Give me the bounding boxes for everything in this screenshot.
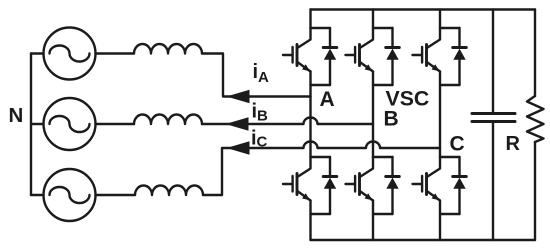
resistor R zigzag — [527, 96, 544, 142]
wire D2 anode to S2 emitter — [440, 213, 460, 215]
wire S2 collector branch to D2 — [440, 156, 460, 158]
wire top bus to upper leg C — [439, 10, 441, 29]
wire phase C from L3 to node C with hops over legs A and B — [203, 142, 440, 196]
wire S5 emitter to node C — [439, 72, 441, 149]
wire capacitor to bottom bus — [492, 122, 494, 240]
transistor S6 (lower leg B IGBT) — [346, 157, 374, 201]
diode D1 — [323, 28, 337, 85]
svg-text:N: N — [9, 104, 24, 127]
transistor S1 (upper leg A IGBT) — [283, 28, 311, 72]
ac source VS1 — [44, 28, 96, 80]
svg-text:C: C — [257, 134, 268, 151]
svg-text:A: A — [320, 88, 335, 111]
wire S2 emitter to bottom bus — [439, 201, 441, 241]
label iA — [253, 61, 270, 86]
diode D5 — [453, 28, 467, 85]
wire S3 emitter to node B — [372, 72, 374, 125]
transistor S2 (lower leg C IGBT) — [413, 157, 441, 201]
bottom DC bus — [311, 239, 536, 241]
wire stub N to source VS1 — [31, 52, 44, 54]
wire stub N to source VS3 — [31, 194, 44, 196]
wire top bus to resistor R — [534, 10, 536, 97]
wire node B to lower leg B — [372, 124, 374, 157]
inductor L2 — [134, 115, 202, 125]
wire S4 emitter to bottom bus — [309, 201, 311, 241]
wire D6 anode to S6 emitter — [373, 213, 393, 215]
transistor S3 (upper leg B IGBT) — [346, 28, 374, 72]
wire S4 collector branch to D4 — [311, 156, 331, 158]
svg-text:R: R — [506, 133, 521, 155]
wire D5 anode to S5 emitter — [440, 84, 460, 86]
wire left neutral bus vertical — [30, 54, 32, 196]
wire VS1 to inductor L1 — [96, 52, 135, 54]
label iC — [251, 128, 268, 151]
wire S5 collector branch to D5 — [440, 27, 460, 29]
inductor L3 — [135, 186, 203, 196]
ac source VS3 — [44, 169, 96, 221]
top DC bus — [311, 8, 536, 10]
ac source VS2 — [44, 98, 96, 150]
current arrow iB — [226, 117, 249, 131]
inductor L1 — [134, 44, 202, 54]
wire S3 collector branch to D3 — [373, 27, 393, 29]
diode D3 — [386, 28, 400, 85]
current arrow iC — [227, 141, 250, 155]
label iB — [252, 101, 269, 125]
wire phase A from L1 to node A — [202, 54, 311, 97]
capacitor C (DC link) — [472, 114, 515, 122]
wire top bus to capacitor — [492, 10, 494, 114]
wire node A to lower leg A — [309, 97, 311, 158]
wire D4 anode to S4 emitter — [311, 213, 331, 215]
svg-text:B: B — [257, 108, 268, 125]
wire S1 collector branch to D1 — [311, 27, 331, 29]
wire node C to lower leg C — [439, 148, 441, 157]
wire VS3 to inductor L3 — [96, 194, 136, 196]
transistor S5 (upper leg C IGBT) — [413, 28, 441, 72]
wire VS2 to inductor L2 — [96, 123, 135, 125]
wire S6 collector branch to D6 — [373, 156, 393, 158]
wire phase B from L2 to node B with hop over leg A — [202, 118, 373, 125]
svg-text:A: A — [258, 69, 269, 86]
wire top bus to upper leg A — [309, 10, 311, 29]
svg-text:C: C — [450, 133, 465, 156]
diode D6 — [386, 157, 400, 214]
wire S6 emitter to bottom bus — [372, 201, 374, 241]
wire S1 emitter to node A — [309, 72, 311, 97]
diode D2 — [453, 157, 467, 214]
wire stub N to source VS2 — [31, 123, 44, 125]
svg-text:B: B — [384, 108, 399, 131]
wire top bus to upper leg B — [372, 10, 374, 29]
current arrow iA — [227, 90, 250, 104]
transistor S4 (lower leg A IGBT) — [283, 157, 311, 201]
wire D3 anode to S3 emitter — [373, 84, 393, 86]
wire resistor to bottom bus — [534, 142, 536, 240]
diode D4 — [323, 157, 337, 214]
wire D1 anode to S1 emitter — [311, 84, 331, 86]
